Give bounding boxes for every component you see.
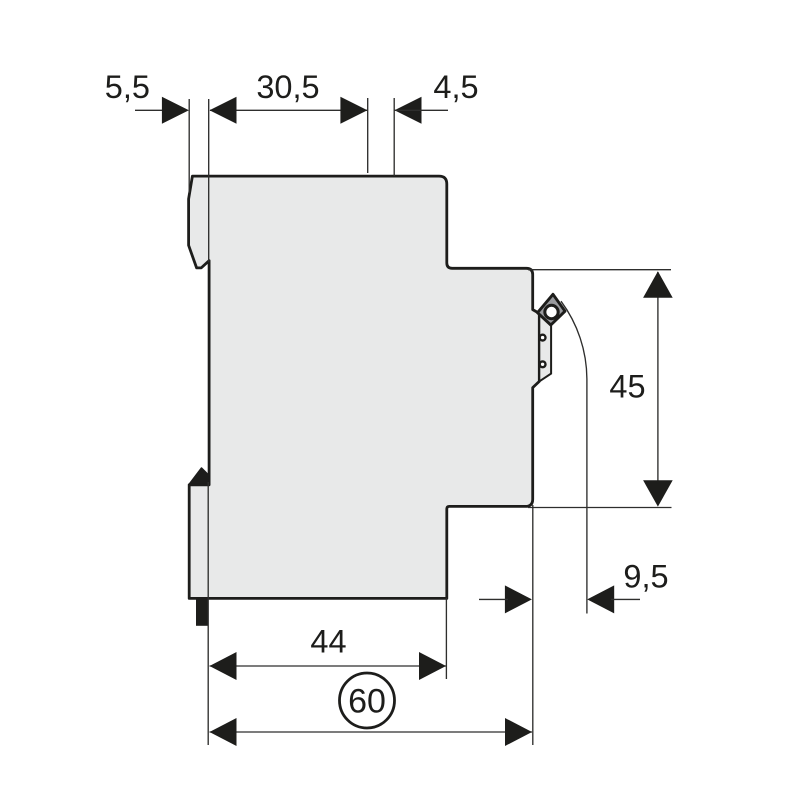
45 bottom reference line <box>528 507 672 509</box>
screw hole lower <box>540 361 546 367</box>
dim 60 line <box>210 731 533 733</box>
dim 9,5 left arrow (points right) <box>505 585 532 613</box>
dim 9,5 left tail <box>479 598 508 600</box>
latch triangle on lower tab <box>189 468 209 484</box>
svg-text:9,5: 9,5 <box>623 559 668 595</box>
svg-text:4,5: 4,5 <box>433 69 478 105</box>
breaker body silhouette <box>189 176 540 598</box>
dim 9,5 right arrow (points left) <box>587 585 614 613</box>
dim 45 up arrow <box>643 271 673 297</box>
dim 9,5 right tail <box>611 598 640 600</box>
dim 5,5 arrow <box>162 97 189 124</box>
dim 30,5 right arrow <box>340 97 367 124</box>
dim 44 left arrow <box>210 652 237 680</box>
toggle diamond <box>538 294 566 325</box>
dim 30,5 left arrow <box>210 97 237 124</box>
dim 60 left arrow <box>210 718 237 746</box>
svg-text:45: 45 <box>609 369 645 405</box>
label 60 circle <box>340 673 395 728</box>
extension line x=208.2 bottom <box>207 482 209 745</box>
dim 44 right arrow <box>419 652 446 680</box>
extension line x=445.9 bottom <box>445 598 447 679</box>
toggle bracket plate <box>539 313 551 381</box>
dim 30,5 line <box>210 109 367 111</box>
svg-text:30,5: 30,5 <box>256 69 319 105</box>
toggle pivot circle <box>545 305 558 318</box>
svg-text:60: 60 <box>348 683 386 721</box>
45 top reference line <box>528 269 671 271</box>
extension line x=189 (5,5 left) <box>188 99 190 193</box>
dim 5,5 tail line <box>135 109 166 111</box>
extension line x=532.6 right <box>532 505 534 745</box>
toggle swing arc <box>561 301 587 613</box>
extension line x=367.7 (30,5 right / 4,5 left) <box>367 98 369 173</box>
DIN clip foot (black) <box>196 598 208 625</box>
svg-text:5,5: 5,5 <box>105 69 150 105</box>
dim 60 right arrow <box>505 718 532 746</box>
dim 4,5 tail line <box>395 109 449 111</box>
svg-text:44: 44 <box>310 624 346 660</box>
dim 4,5 arrow <box>395 97 422 124</box>
dim 45 line <box>657 272 659 505</box>
extension line x=394.2 (4,5 right) <box>393 98 395 176</box>
dim 45 down arrow <box>643 480 673 506</box>
dim 44 line <box>210 665 447 667</box>
extension line x=208.7 (5,5 right / 30,5 left) <box>208 99 210 262</box>
screw hole upper <box>540 335 546 341</box>
